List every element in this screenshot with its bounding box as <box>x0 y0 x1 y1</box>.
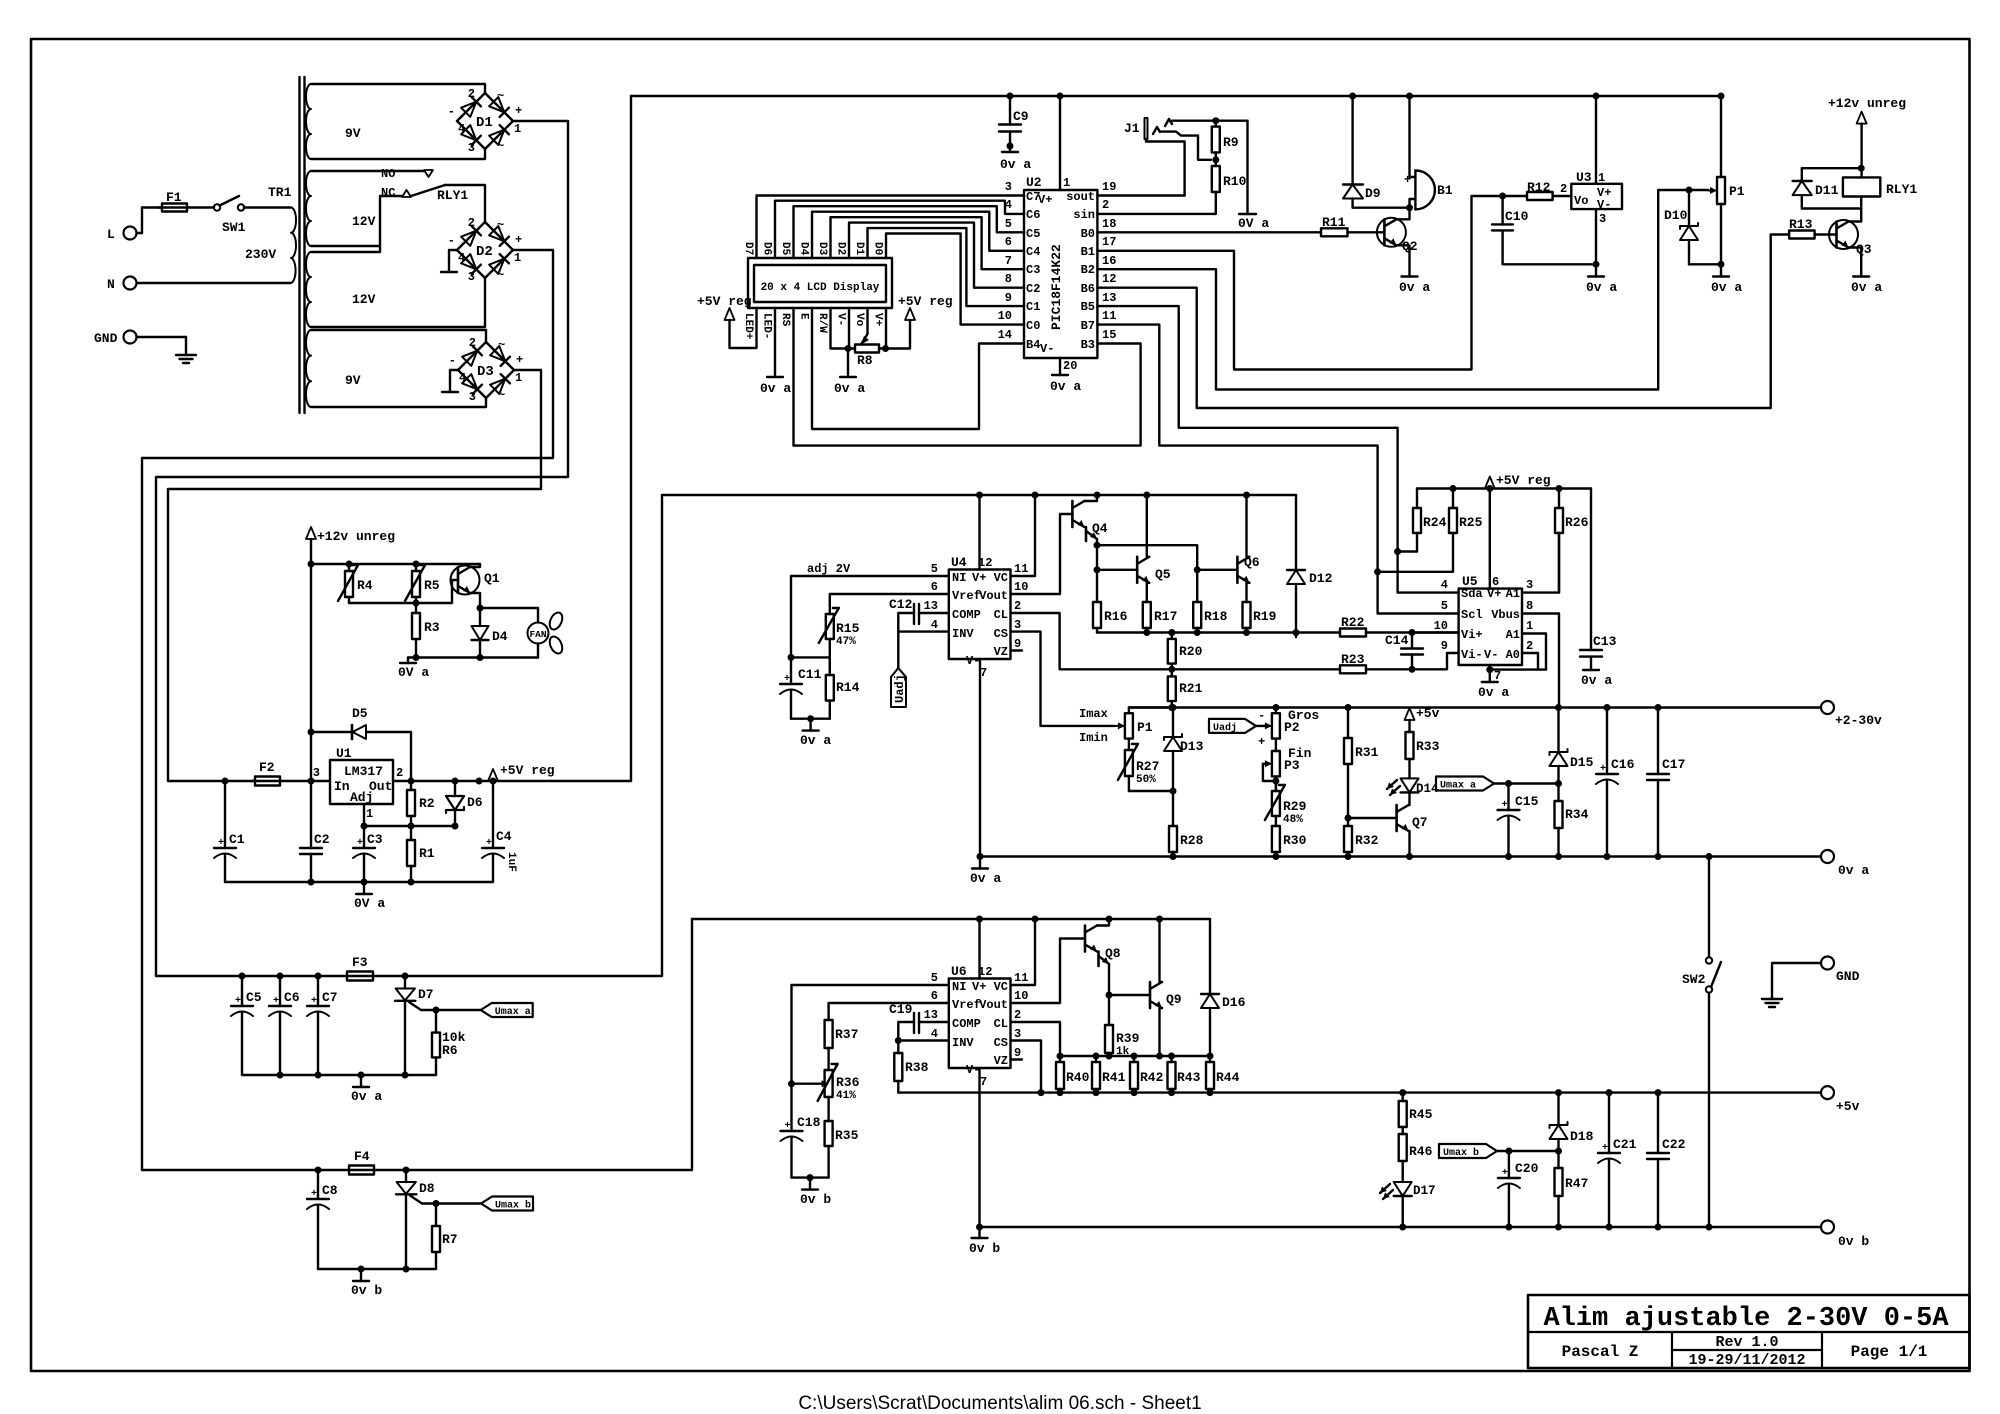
svg-text:B5: B5 <box>1081 300 1095 314</box>
diode D12 <box>1295 495 1297 570</box>
svg-text:D6: D6 <box>761 242 773 255</box>
capacitor C14 <box>1411 633 1413 649</box>
svg-text:2: 2 <box>469 336 476 350</box>
svg-text:Vi+: Vi+ <box>1461 628 1483 642</box>
svg-text:N: N <box>107 277 115 292</box>
fuse F4 <box>349 1166 374 1175</box>
ground 0v a at Q3 <box>1853 275 1869 277</box>
svg-text:PIC18F14K22: PIC18F14K22 <box>1049 244 1064 330</box>
svg-text:10: 10 <box>1014 580 1028 594</box>
svg-text:+: + <box>516 353 523 367</box>
wire R15 R14 junction <box>791 656 830 658</box>
resistor R38 <box>897 1041 899 1054</box>
svg-text:C21: C21 <box>1613 1137 1637 1152</box>
svg-text:F4: F4 <box>354 1149 370 1164</box>
svg-text:17: 17 <box>1102 235 1116 249</box>
svg-text:Umax b: Umax b <box>1443 1147 1479 1159</box>
svg-text:Scl: Scl <box>1461 608 1483 622</box>
wire J1 tip to R9 <box>1172 119 1248 121</box>
net +12v unreg left <box>306 527 316 539</box>
resistor R14 <box>829 657 831 675</box>
svg-text:3: 3 <box>469 390 476 404</box>
wire LED- ground <box>774 308 776 377</box>
wire R/W to R8 <box>831 308 849 349</box>
svg-text:+12v unreg: +12v unreg <box>1828 96 1906 111</box>
resistor R43 <box>1170 1056 1172 1062</box>
svg-text:~: ~ <box>497 268 504 282</box>
svg-text:4: 4 <box>931 618 938 632</box>
svg-text:D3: D3 <box>816 242 828 256</box>
diode D11 <box>1802 168 1861 181</box>
svg-text:Alim ajustable 2-30V 0-5A: Alim ajustable 2-30V 0-5A <box>1543 1304 1949 1334</box>
wire LCD D3 to U2 C3 <box>831 217 1025 269</box>
svg-text:C19: C19 <box>889 1002 913 1017</box>
svg-text:9V: 9V <box>345 373 361 388</box>
svg-text:+: + <box>218 838 224 849</box>
svg-text:C15: C15 <box>1515 794 1539 809</box>
ground 0V a of U1 rail <box>363 882 365 894</box>
svg-text:13: 13 <box>924 599 938 613</box>
net +5v at R33 <box>1405 708 1415 720</box>
svg-text:V+: V+ <box>872 313 884 327</box>
svg-text:3: 3 <box>1599 212 1606 226</box>
zener diode D6 <box>454 781 456 796</box>
svg-text:+: + <box>1404 173 1411 187</box>
svg-text:R43: R43 <box>1177 1070 1201 1085</box>
resistor R35 <box>827 1120 829 1122</box>
pin U2 V- pin20 <box>1059 358 1061 375</box>
svg-text:1: 1 <box>515 371 522 385</box>
svg-text:C1: C1 <box>1026 300 1040 314</box>
svg-text:-: - <box>448 105 455 119</box>
wire LCD Vo wiper <box>866 308 868 334</box>
svg-text:1uF: 1uF <box>505 852 517 872</box>
svg-text:0V a: 0V a <box>1238 216 1269 231</box>
svg-text:R26: R26 <box>1565 515 1589 530</box>
svg-text:+5V reg: +5V reg <box>898 294 953 309</box>
wire LCD D7 to U2 C7 <box>757 196 1025 259</box>
thyristor D8 <box>405 1170 407 1182</box>
wire LCD D6 to U2 C6 <box>775 201 1024 258</box>
svg-text:R14: R14 <box>836 680 860 695</box>
resistor R33 <box>1408 720 1410 732</box>
IC U4 box <box>949 570 1011 660</box>
resistor R9 <box>1215 121 1217 127</box>
svg-text:R2: R2 <box>419 796 435 811</box>
flag Uadj at U4 <box>891 668 906 707</box>
svg-text:+5v: +5v <box>1836 1099 1860 1114</box>
svg-text:C13: C13 <box>1593 634 1617 649</box>
svg-text:C11: C11 <box>798 667 822 682</box>
svg-text:V-: V- <box>1040 342 1054 356</box>
svg-text:R46: R46 <box>1409 1144 1433 1159</box>
svg-text:20 x 4 LCD Display: 20 x 4 LCD Display <box>761 282 880 294</box>
svg-text:0v b: 0v b <box>351 1283 382 1298</box>
resistor R2 <box>410 781 412 790</box>
svg-text:R11: R11 <box>1322 215 1346 230</box>
svg-text:+: + <box>311 996 317 1007</box>
resistor R1 <box>410 826 412 840</box>
svg-text:Q5: Q5 <box>1155 567 1171 582</box>
svg-text:Q1: Q1 <box>484 571 500 586</box>
svg-text:+2-30v: +2-30v <box>1835 713 1882 728</box>
svg-text:~: ~ <box>497 89 504 103</box>
svg-text:D3: D3 <box>477 364 494 380</box>
wire F4 row <box>142 1169 349 1171</box>
svg-text:U4: U4 <box>951 555 967 570</box>
pin U4 VZ stub <box>1011 649 1023 651</box>
svg-text:D4: D4 <box>798 242 810 256</box>
ground at D2 pin4 <box>449 250 457 272</box>
svg-text:47%: 47% <box>836 636 856 648</box>
pin U5 V- pin7 <box>1489 665 1491 682</box>
resistor R18 <box>1196 570 1198 602</box>
svg-text:0v a: 0v a <box>1838 863 1869 878</box>
svg-text:9: 9 <box>1014 1046 1021 1060</box>
svg-text:0v a: 0v a <box>1000 157 1031 172</box>
svg-text:0v a: 0v a <box>1711 280 1742 295</box>
wire LCD D0 to U2 C0 <box>886 234 1024 325</box>
resistor R24 <box>1416 489 1418 509</box>
wire RS to U2 B3 <box>794 308 1141 446</box>
svg-text:R42: R42 <box>1140 1070 1164 1085</box>
svg-text:R28: R28 <box>1180 833 1204 848</box>
wire U6 CL to R40 rail <box>1011 1022 1061 1056</box>
resistor R40 <box>1059 1056 1061 1062</box>
svg-text:E: E <box>798 313 810 320</box>
svg-text:48%: 48% <box>1283 814 1303 826</box>
bridge rectifier D2 <box>485 222 513 250</box>
wire F3 row <box>156 975 347 977</box>
svg-text:C4: C4 <box>1026 245 1040 259</box>
resistor R37 <box>827 1019 829 1021</box>
svg-text:RLY1: RLY1 <box>437 188 468 203</box>
resistor R32 <box>1347 818 1349 826</box>
svg-text:C18: C18 <box>797 1115 821 1130</box>
svg-text:INV: INV <box>952 627 974 641</box>
svg-text:10: 10 <box>1434 619 1448 633</box>
svg-text:12: 12 <box>1102 272 1116 286</box>
svg-text:Vo: Vo <box>853 313 865 327</box>
wire B5 to Sda <box>1097 306 1458 592</box>
svg-text:R8: R8 <box>857 353 873 368</box>
svg-text:Q9: Q9 <box>1166 992 1182 1007</box>
svg-text:R34: R34 <box>1565 807 1589 822</box>
svg-text:VC: VC <box>994 980 1008 994</box>
svg-text:GND: GND <box>1836 969 1860 984</box>
ground 0v a under C13 <box>1583 669 1599 671</box>
wire U6 Vout to Q8 base <box>1011 939 1086 1004</box>
resistor R16 <box>1096 570 1098 602</box>
wire U6 INV row <box>898 1039 949 1041</box>
svg-text:F3: F3 <box>352 955 368 970</box>
svg-text:D7: D7 <box>742 242 754 255</box>
svg-text:V+: V+ <box>972 571 986 585</box>
wire +5v output rail <box>898 1091 1821 1093</box>
terminal N <box>124 277 137 290</box>
resistor R39 1k <box>1108 995 1110 1025</box>
wire U1 adj row <box>363 804 365 826</box>
svg-text:LED-: LED- <box>761 313 773 339</box>
wire U4 Vref to R15 <box>830 594 949 614</box>
svg-text:9: 9 <box>1014 637 1021 651</box>
svg-text:16: 16 <box>1102 254 1116 268</box>
svg-text:RS: RS <box>779 313 791 327</box>
trimmer P1 current <box>1125 713 1133 738</box>
resistor R17 <box>1146 601 1148 603</box>
svg-text:5: 5 <box>1005 217 1012 231</box>
svg-text:4: 4 <box>458 251 465 265</box>
svg-text:D15: D15 <box>1570 755 1594 770</box>
transistor Q8 <box>1084 926 1087 952</box>
wire Q4 emitter row <box>1097 545 1197 570</box>
svg-text:V-: V- <box>1484 648 1498 662</box>
wire U4 VC riser <box>1011 495 1036 576</box>
svg-text:RLY1: RLY1 <box>1886 182 1917 197</box>
wire C14 to U5 Vi+ <box>1412 631 1459 633</box>
wire Q6 base <box>1197 569 1237 571</box>
svg-text:Q7: Q7 <box>1412 815 1428 830</box>
svg-text:7: 7 <box>1005 254 1012 268</box>
svg-text:C0: C0 <box>1026 319 1040 333</box>
svg-text:+: + <box>784 674 790 685</box>
wire B1 net to R12 C10 <box>1097 196 1502 370</box>
wire B0 to R11 <box>1097 231 1321 233</box>
capacitor C8 <box>317 1170 319 1199</box>
resistor R21 <box>1171 669 1173 676</box>
svg-text:J1: J1 <box>1124 121 1140 136</box>
svg-text:sin: sin <box>1073 208 1095 222</box>
resistor R46 <box>1401 1133 1403 1135</box>
svg-text:+: + <box>1602 1143 1608 1154</box>
svg-text:D6: D6 <box>467 795 483 810</box>
svg-text:B3: B3 <box>1081 338 1095 352</box>
wire U6 Vref to R37 <box>829 1003 949 1020</box>
svg-text:1: 1 <box>514 122 521 136</box>
pin U3 ground pin3 <box>1595 209 1597 264</box>
svg-text:+5V reg: +5V reg <box>500 763 555 778</box>
resistor R41 <box>1095 1056 1097 1062</box>
svg-text:2: 2 <box>1560 182 1567 196</box>
wire GND to earth <box>1772 963 1821 999</box>
svg-text:B2: B2 <box>1081 263 1095 277</box>
wire U5 Vbus to output rail <box>1522 614 1559 708</box>
wire P1 top to output rail <box>1129 706 1172 708</box>
capacitor C18 <box>790 1084 792 1131</box>
svg-text:8: 8 <box>1005 272 1012 286</box>
ground at D3 pin4 <box>450 370 458 392</box>
flag Umax a left <box>481 1003 533 1017</box>
svg-text:19: 19 <box>1102 180 1116 194</box>
wire Q7 base <box>1348 817 1397 819</box>
svg-text:B0: B0 <box>1081 227 1095 241</box>
transformer secondary 12V upper <box>306 171 311 246</box>
svg-text:D1: D1 <box>853 242 865 256</box>
wire LCD D4 to U2 C4 <box>812 212 1024 258</box>
wire F2 input row <box>168 780 255 782</box>
svg-text:CS: CS <box>994 627 1008 641</box>
svg-text:18: 18 <box>1102 217 1116 231</box>
svg-text:D5: D5 <box>779 242 791 256</box>
resistor R42 <box>1133 1056 1135 1062</box>
svg-text:~: ~ <box>497 139 504 153</box>
svg-text:2: 2 <box>1526 639 1533 653</box>
svg-text:P1: P1 <box>1137 720 1153 735</box>
ground 0v a under U2 <box>1052 374 1068 376</box>
svg-text:5: 5 <box>1441 599 1448 613</box>
svg-text:13: 13 <box>924 1008 938 1022</box>
svg-text:+: + <box>311 1189 317 1200</box>
wire U4 Vout to Q4 base <box>1011 514 1073 594</box>
svg-text:U3: U3 <box>1576 170 1592 185</box>
svg-text:C2: C2 <box>1026 282 1040 296</box>
svg-text:~: ~ <box>497 218 504 232</box>
svg-text:6: 6 <box>1005 235 1012 249</box>
svg-text:NC: NC <box>381 186 395 200</box>
wire Umax a node to D15 <box>1509 782 1559 784</box>
wire D3 output bus <box>168 370 541 781</box>
transformer secondary 9V bottom <box>306 330 311 407</box>
svg-text:5: 5 <box>931 562 938 576</box>
svg-text:C6: C6 <box>1026 208 1040 222</box>
svg-text:D2: D2 <box>476 244 493 260</box>
capacitor C10 <box>1501 196 1503 224</box>
pin U6 V+ pin12 <box>978 919 980 979</box>
IC U2 PIC18F14K22 box <box>1024 190 1097 358</box>
capacitor C22 <box>1657 1093 1659 1153</box>
svg-text:+: + <box>486 838 492 849</box>
svg-text:Vref: Vref <box>952 998 981 1012</box>
svg-text:C6: C6 <box>284 990 300 1005</box>
svg-text:Vo: Vo <box>1574 194 1588 208</box>
wire C5-C7 ground rail a <box>242 1074 436 1076</box>
svg-text:R39: R39 <box>1116 1031 1140 1046</box>
fan FAN <box>480 608 538 623</box>
transistor Q7 <box>1395 805 1398 831</box>
svg-text:V+: V+ <box>972 980 986 994</box>
wire LCD V- ground <box>848 308 850 349</box>
svg-text:V-: V- <box>835 313 847 326</box>
resistor R11 <box>1321 228 1348 236</box>
transformer TR1 core <box>298 77 300 413</box>
svg-text:19-29/11/2012: 19-29/11/2012 <box>1688 1352 1805 1369</box>
capacitor C21 <box>1608 1093 1610 1153</box>
svg-text:D18: D18 <box>1570 1129 1594 1144</box>
net +5V reg above U5 <box>1485 477 1495 489</box>
fuse F3 <box>347 972 373 981</box>
svg-text:+5V reg: +5V reg <box>697 294 752 309</box>
flag Umax a right <box>1436 777 1494 791</box>
trimmer P1 relay threshold <box>1720 96 1722 177</box>
diode D5 <box>311 731 352 733</box>
svg-text:8: 8 <box>1526 599 1533 613</box>
relay coil RLY1 <box>1843 177 1880 196</box>
pin U5 V+ pin6 <box>1489 489 1491 589</box>
svg-text:0v a: 0v a <box>760 381 791 396</box>
svg-text:11: 11 <box>1102 309 1116 323</box>
svg-text:R19: R19 <box>1253 609 1277 624</box>
wire Umax b node to D18 <box>1509 1150 1559 1152</box>
wire D8 gate to Umax b <box>422 1202 481 1204</box>
svg-text:D5: D5 <box>352 706 368 721</box>
terminal L <box>124 227 137 240</box>
wire C8 ground rail b <box>318 1268 436 1270</box>
svg-text:Imax: Imax <box>1079 707 1108 721</box>
pin U3 V+ pin1 <box>1595 96 1597 184</box>
svg-text:COMP: COMP <box>952 1017 981 1031</box>
svg-text:+: + <box>235 996 241 1007</box>
transformer TR1 primary coil <box>291 207 296 283</box>
wire rail a V+ <box>662 494 1296 496</box>
svg-text:R30: R30 <box>1283 833 1307 848</box>
capacitor C1 <box>224 781 226 848</box>
svg-text:B1: B1 <box>1081 245 1095 259</box>
svg-text:Gros: Gros <box>1288 708 1319 723</box>
resistor R19 <box>1245 601 1247 603</box>
svg-text:Umax a: Umax a <box>495 1007 531 1018</box>
svg-text:C3: C3 <box>367 832 383 847</box>
svg-text:0v b: 0v b <box>800 1192 831 1207</box>
trimmer R36 41% <box>827 1069 829 1071</box>
svg-text:In: In <box>334 779 350 794</box>
LCD display 20x4 box <box>748 258 892 308</box>
wire U4 CL to R23 row <box>1011 613 1341 669</box>
title block <box>1528 1295 1970 1368</box>
svg-text:11: 11 <box>1014 971 1028 985</box>
trimmer R8 <box>855 345 879 353</box>
flag Umax b left <box>481 1197 533 1211</box>
svg-text:NI: NI <box>952 571 966 585</box>
IC U5 box <box>1459 589 1522 665</box>
regulator U1 LM317 <box>330 760 393 804</box>
fuse F1 <box>162 204 187 212</box>
ground 0v a at LED- <box>767 376 783 378</box>
wire Q1 ground row <box>408 656 538 658</box>
svg-text:Rev 1.0: Rev 1.0 <box>1715 1334 1778 1351</box>
svg-text:U6: U6 <box>951 964 967 979</box>
svg-text:R29: R29 <box>1283 799 1307 814</box>
svg-text:1: 1 <box>514 251 521 265</box>
svg-text:Uadj: Uadj <box>1213 722 1237 734</box>
svg-text:R25: R25 <box>1459 515 1483 530</box>
wire B2 to D10 node <box>1097 190 1689 390</box>
wire E to U2 B4 <box>812 308 1024 429</box>
svg-text:2: 2 <box>468 216 475 230</box>
svg-text:Adj: Adj <box>350 790 373 805</box>
ground 0v a caps row <box>360 1075 362 1087</box>
relay contact RLY1 <box>424 170 433 177</box>
wire +2-30v output rail <box>1129 706 1821 708</box>
svg-text:R33: R33 <box>1416 739 1440 754</box>
svg-text:COMP: COMP <box>952 608 981 622</box>
svg-text:Imin: Imin <box>1079 731 1108 745</box>
transformer secondary 9V top <box>306 84 311 159</box>
svg-text:Vi-: Vi- <box>1461 648 1483 662</box>
wire Q5 base <box>1097 569 1137 571</box>
net +5V reg at LCD V+ <box>905 308 915 320</box>
capacitor C5 <box>241 976 243 1006</box>
svg-text:0v a: 0v a <box>800 733 831 748</box>
resistor R47 <box>1557 1151 1559 1168</box>
transistor Q6 <box>1236 557 1239 583</box>
svg-text:CL: CL <box>994 608 1008 622</box>
svg-text:D1: D1 <box>476 115 493 131</box>
pin U4 V- pin7 <box>979 659 981 857</box>
svg-text:14: 14 <box>998 328 1012 342</box>
svg-text:TR1: TR1 <box>268 185 292 200</box>
svg-text:Q3: Q3 <box>1856 242 1872 257</box>
svg-text:-: - <box>1258 709 1265 723</box>
